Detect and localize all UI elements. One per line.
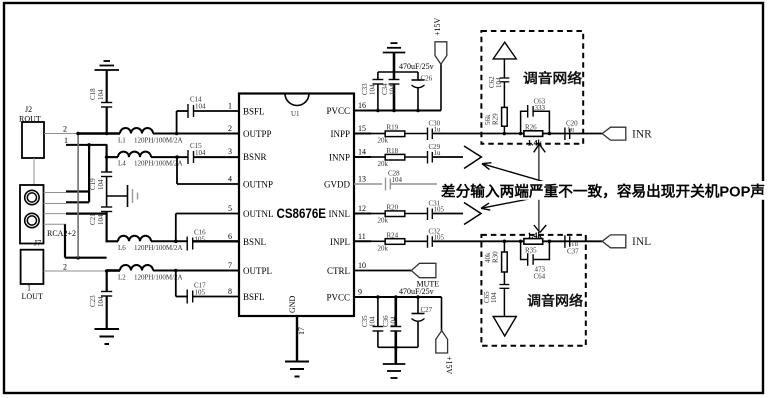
capacitor C16 [187, 229, 206, 251]
svg-text:L6: L6 [118, 244, 126, 252]
svg-text:104: 104 [390, 316, 398, 327]
capacitor C17 [187, 282, 206, 304]
resistor R24 20k [371, 231, 428, 252]
arrowhead down at R35 [534, 225, 540, 233]
svg-text:GVDD: GVDD [324, 180, 350, 190]
connector J7 [21, 239, 44, 302]
svg-text:20k: 20k [378, 217, 389, 225]
svg-text:333: 333 [535, 104, 546, 112]
junction [87, 143, 91, 147]
svg-text:BSFL: BSFL [243, 107, 265, 117]
wire to tone network R [432, 133, 602, 135]
svg-text:INL: INL [632, 236, 651, 248]
resistor R20 20k [371, 204, 428, 225]
capacitor C35 [361, 297, 383, 347]
svg-text:R29: R29 [492, 113, 500, 125]
wire C17 to pin8 [193, 296, 239, 298]
ground (top left, inverted) [95, 61, 120, 70]
svg-text:9: 9 [358, 288, 362, 297]
wire row7 node vertical [106, 271, 108, 292]
svg-text:CS8676E: CS8676E [277, 205, 327, 221]
capacitor C19 [89, 172, 112, 190]
svg-text:3: 3 [228, 147, 232, 156]
svg-text:OUTNL: OUTNL [243, 209, 274, 219]
svg-text:470uF/25v: 470uF/25v [399, 287, 434, 296]
svg-text:120PH/100M/2A: 120PH/100M/2A [134, 244, 183, 252]
svg-text:104: 104 [369, 84, 377, 95]
wire RCA pin4 [44, 223, 67, 225]
wire net to J7 [65, 257, 107, 259]
capacitor C23 [89, 292, 112, 308]
net PVCC bottom (pin9 row) [354, 296, 442, 298]
wire L1 to node [153, 133, 239, 135]
capacitor C37 [565, 235, 579, 255]
wire vertical bus B [88, 145, 90, 202]
svg-text:+15V: +15V [445, 356, 454, 375]
wire J2 pin2 [44, 133, 78, 135]
net INNL (pin12 row) [354, 213, 371, 215]
svg-text:20k: 20k [378, 160, 389, 168]
svg-text:C26: C26 [421, 75, 433, 83]
svg-text:16: 16 [358, 101, 366, 110]
ground (top, inverted) [383, 43, 406, 72]
junction [105, 132, 109, 136]
wire row5 to pin5 [176, 213, 239, 215]
capacitor C28 (gray) [386, 170, 403, 191]
wire L4 to node [151, 156, 188, 158]
svg-text:105: 105 [434, 233, 445, 241]
svg-text:2: 2 [63, 125, 67, 134]
flag INR [602, 127, 652, 140]
svg-text:OUTPP: OUTPP [243, 129, 272, 139]
net GVDD (pin13 row, gray) [354, 183, 382, 185]
svg-text:PVCC: PVCC [326, 293, 350, 303]
ground (bottom left) [95, 329, 120, 344]
wire to open node [432, 156, 463, 158]
capacitor C65 [483, 272, 509, 317]
capacitor C15 [188, 142, 206, 164]
triangle (tone R) [493, 42, 516, 59]
svg-text:12: 12 [358, 204, 366, 213]
wire C15 to pin3 [194, 156, 240, 158]
svg-text:105: 105 [434, 206, 445, 214]
wire GND pin [296, 316, 298, 362]
connector RCA2+2 [20, 185, 76, 244]
wire branch row3 down to row4 [176, 156, 178, 184]
annotation arrow to chevron R [482, 164, 562, 187]
svg-text:10: 10 [358, 261, 366, 270]
wire to tone network L [432, 240, 602, 242]
capacitor C20 [565, 120, 578, 141]
capacitor C34 [381, 72, 399, 111]
net INPP (pin15 row) [354, 133, 371, 135]
capacitor C27 electrolytic [412, 297, 433, 347]
svg-text:104: 104 [389, 84, 397, 95]
wire branch row5 down to row6 [175, 214, 177, 242]
svg-text:+15V: +15V [433, 17, 442, 36]
capacitor C18 [89, 70, 112, 134]
wire row4 to pin4 [177, 183, 239, 185]
wire J2 to RCA [33, 158, 35, 185]
svg-text:L2: L2 [118, 274, 126, 282]
junction node [105, 155, 109, 159]
svg-text:GND: GND [288, 295, 297, 313]
svg-text:R18: R18 [387, 147, 399, 155]
svg-text:C37: C37 [567, 248, 579, 256]
svg-text:PVCC: PVCC [326, 106, 350, 116]
svg-text:C64: C64 [534, 273, 546, 281]
svg-text:104: 104 [97, 89, 105, 100]
capacitor C31 [428, 200, 445, 221]
svg-text:15: 15 [358, 124, 366, 133]
svg-text:INNL: INNL [329, 209, 351, 219]
svg-text:INPP: INPP [330, 129, 350, 139]
capacitor C36 [382, 297, 401, 347]
svg-text:104: 104 [369, 316, 377, 327]
svg-text:8: 8 [228, 287, 232, 296]
wire row1b corner down [105, 145, 107, 172]
svg-text:104: 104 [495, 77, 503, 88]
svg-text:2: 2 [228, 124, 232, 133]
wire GVDD continue [390, 183, 584, 185]
svg-text:差分输入两端严重不一致，容易出现开关机POP声: 差分输入两端严重不一致，容易出现开关机POP声 [441, 183, 765, 201]
svg-text:BSFL: BSFL [243, 292, 265, 302]
svg-text:LOUT: LOUT [22, 292, 43, 301]
wire stub to L4 [107, 156, 118, 158]
triangle (tone L, down) [493, 317, 516, 337]
annotation vertical arrow line [538, 145, 540, 232]
svg-text:C27: C27 [421, 306, 433, 314]
svg-text:R26: R26 [525, 124, 537, 132]
node marker chevron L [464, 203, 481, 225]
svg-text:20k: 20k [378, 137, 389, 145]
svg-text:INPL: INPL [330, 237, 350, 247]
svg-text:RCA2+2: RCA2+2 [47, 229, 76, 238]
svg-text:R20: R20 [387, 204, 399, 212]
svg-text:INNP: INNP [329, 153, 350, 163]
svg-text:104: 104 [97, 214, 105, 225]
net CTRL (pin10 row) [354, 270, 411, 272]
wire rail to L6 [107, 212, 118, 242]
svg-text:104: 104 [195, 103, 206, 111]
svg-text:1: 1 [64, 136, 68, 145]
capacitor C64 parallel [521, 241, 550, 280]
svg-text:6: 6 [228, 232, 232, 241]
capacitor C29 [428, 143, 442, 164]
wire branch row7 down to row8 [175, 271, 177, 297]
wire L6 to node [151, 240, 188, 242]
capacitor C14 [188, 96, 206, 119]
resistor R18 20k [371, 147, 428, 168]
svg-text:OUTNP: OUTNP [243, 180, 273, 190]
power flag +15V bottom [436, 297, 454, 375]
svg-text:2: 2 [63, 263, 67, 272]
tone network box L (dashed) [481, 235, 585, 346]
ground (bottom mid) [383, 347, 406, 378]
svg-text:105: 105 [195, 289, 206, 297]
net PVCC top (pin16 row) [354, 110, 441, 112]
svg-text:CTRL: CTRL [327, 266, 350, 276]
wire RCA pin2 [44, 203, 67, 205]
net INPL (pin11 row) [354, 240, 371, 242]
wire C16 to pin6 [193, 240, 239, 242]
svg-text:C18: C18 [89, 88, 97, 100]
junction [76, 256, 80, 260]
resistor R30 40k (vertical) [484, 241, 507, 272]
svg-text:13: 13 [358, 175, 366, 184]
svg-text:J2: J2 [25, 105, 32, 114]
svg-text:1u: 1u [434, 126, 442, 134]
svg-text:OUTPL: OUTPL [243, 266, 272, 276]
svg-text:R24: R24 [387, 231, 399, 239]
flag MUTE [411, 263, 439, 288]
junction [76, 132, 80, 136]
capacitor C26 electrolytic 470uF/25v [399, 62, 434, 111]
wire L2 to node [153, 270, 239, 272]
resistor R19 20k [371, 124, 428, 145]
svg-text:470uF/25v: 470uF/25v [399, 62, 434, 71]
inductor L2 [107, 265, 183, 282]
svg-text:1u: 1u [567, 126, 575, 134]
capacitor C32 [428, 227, 445, 248]
capacitor C63 parallel [521, 98, 550, 134]
svg-text:C21: C21 [89, 213, 97, 225]
svg-text:调音网络: 调音网络 [523, 70, 583, 86]
svg-text:7: 7 [228, 261, 232, 270]
flag INL [602, 235, 651, 248]
svg-text:调音网络: 调音网络 [527, 293, 584, 309]
svg-text:R30: R30 [492, 251, 500, 263]
svg-text:120PH/100M/2A: 120PH/100M/2A [134, 160, 183, 168]
svg-text:104: 104 [392, 176, 403, 184]
wire C14 to pin1 [194, 110, 240, 112]
wire branch row2 up to row1 [176, 111, 178, 134]
wire RCA pin1 [44, 192, 67, 194]
wire ground rail mid [106, 177, 108, 208]
svg-text:1u: 1u [434, 149, 442, 157]
capacitor C30 [428, 120, 442, 141]
svg-text:104: 104 [97, 296, 105, 307]
wire RCA pin3 [44, 213, 67, 215]
resistor R26 1.4k [524, 124, 543, 148]
svg-text:R19: R19 [387, 124, 399, 132]
svg-text:104: 104 [195, 149, 206, 157]
junction [105, 269, 109, 273]
inductor L1 [78, 128, 183, 145]
tone network box R (dashed) [481, 31, 583, 144]
ground (below IC) [285, 362, 309, 377]
net INNP (pin14 row) [354, 156, 371, 158]
svg-text:104: 104 [490, 292, 498, 303]
svg-text:U1: U1 [291, 110, 300, 118]
wire top bus [378, 71, 418, 73]
svg-text:20k: 20k [378, 244, 389, 252]
op-amp U1 CS8676E body [239, 94, 354, 317]
ground (sideways) [128, 185, 138, 207]
svg-text:120PH/100M/2A: 120PH/100M/2A [134, 137, 183, 145]
svg-text:104: 104 [97, 179, 105, 190]
svg-text:BSNL: BSNL [243, 237, 266, 247]
annotation text background [437, 181, 766, 200]
svg-text:L1: L1 [118, 137, 126, 145]
arrowhead up at R26 [534, 144, 540, 152]
svg-text:17: 17 [297, 327, 306, 335]
svg-text:INR: INR [632, 129, 652, 141]
connector J2 [19, 105, 44, 158]
wire to ground [106, 296, 108, 329]
wire stub to side ground [107, 195, 128, 197]
svg-text:L4: L4 [118, 160, 126, 168]
annotation arrow to chevron L [481, 193, 562, 209]
wire J7 pin2 [44, 270, 107, 272]
resistor R35 1.4k [524, 231, 543, 255]
wire to open node [432, 213, 463, 215]
resistor R29 56k (vertical) [484, 107, 507, 133]
wire vertical bus A [77, 134, 79, 258]
svg-text:11: 11 [358, 232, 366, 241]
svg-text:R35: R35 [525, 247, 537, 255]
inductor L4 [118, 152, 183, 168]
capacitor C21 [89, 207, 112, 225]
svg-text:C19: C19 [89, 178, 97, 190]
capacitor C62 [488, 59, 509, 108]
svg-text:C23: C23 [89, 295, 97, 307]
svg-text:5: 5 [228, 204, 232, 213]
wire bottom bus [378, 346, 418, 348]
inductor L6 [118, 236, 183, 252]
svg-text:BSNR: BSNR [243, 152, 267, 162]
wire J2 pin1 [66, 144, 107, 146]
capacitor C33 [361, 72, 383, 111]
svg-text:J7: J7 [34, 239, 41, 248]
svg-text:1: 1 [228, 102, 232, 111]
svg-text:4: 4 [228, 175, 232, 184]
wire row8 [176, 296, 188, 298]
node marker chevron R [464, 146, 481, 169]
power flag +15V top [433, 17, 447, 110]
svg-text:14: 14 [358, 148, 366, 157]
